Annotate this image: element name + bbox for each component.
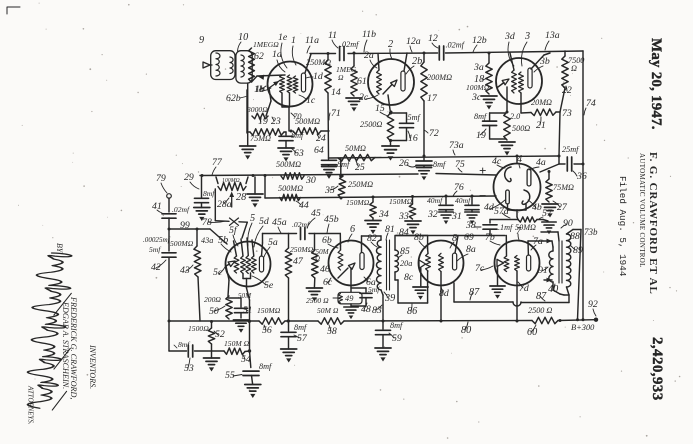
label 4a (529, 157, 546, 170)
resistor 50 200ohm (204, 295, 232, 319)
label 90 (561, 218, 573, 229)
resistor 18 100M (466, 53, 492, 103)
svg-text:Ω: Ω (571, 64, 577, 73)
svg-text:250MΩ: 250MΩ (348, 180, 373, 189)
svg-text:May 20, 1947.: May 20, 1947. (648, 38, 664, 130)
wire: V7 plate to output transformer (528, 241, 543, 255)
capacitor 64 8mf to ground (314, 145, 351, 179)
svg-text:150M Ω: 150M Ω (224, 339, 250, 348)
label 85 (398, 246, 410, 258)
wire: bottom bus B+ (169, 320, 595, 321)
label 62b (226, 93, 246, 104)
resistor 19 3000ohm (246, 105, 268, 127)
label 20a (400, 259, 412, 268)
text: EDGAR A. STRASCHEIN. (61, 301, 70, 389)
svg-text:73a: 73a (449, 140, 464, 151)
tube V8 envelope (419, 241, 464, 286)
svg-text:43a: 43a (201, 236, 213, 245)
svg-text:33: 33 (398, 211, 409, 222)
wire: V8 cathode to ground (420, 268, 422, 286)
svg-text:100MΩ: 100MΩ (222, 178, 240, 184)
capacitor 51 50mf (228, 292, 252, 318)
ground: resistor 18 (481, 96, 497, 110)
wire: V1 cathode lead (266, 101, 271, 116)
svg-text:500Ω: 500Ω (512, 124, 530, 133)
terminal 79 (156, 173, 171, 198)
svg-text:50M: 50M (238, 292, 252, 300)
ground: V2 cathode (382, 141, 399, 161)
svg-text:5f: 5f (229, 225, 238, 236)
svg-text:1d: 1d (313, 71, 323, 82)
svg-text:Filed Aug. 5, 1944: Filed Aug. 5, 1944 (617, 176, 628, 277)
svg-text:81: 81 (385, 224, 395, 235)
tube V2 envelope (368, 59, 414, 105)
wire: 41 to node 99 (168, 218, 170, 229)
resistor 60 2500ohm (527, 306, 558, 338)
wire: V6 grid top (340, 246, 342, 250)
svg-text:2a: 2a (364, 50, 374, 61)
svg-text:62b: 62b (226, 93, 241, 104)
tube V1 envelope (268, 62, 313, 107)
tube V5 cathode (226, 261, 235, 280)
label 82 (367, 233, 377, 247)
wire: V7 inner lead to bus (7d) (516, 271, 518, 321)
svg-text:87: 87 (536, 291, 547, 302)
tube V6 plate (360, 253, 364, 270)
wire: arrow to coil top (552, 241, 553, 251)
svg-text:11a: 11a (305, 35, 319, 46)
tube V1 plate (301, 73, 305, 92)
svg-text:40mf: 40mf (455, 196, 471, 205)
svg-text:60: 60 (527, 327, 537, 338)
wire 74: right vertical (583, 51, 596, 320)
wire: 46 bottom (313, 278, 315, 288)
ground: node 52 (204, 351, 220, 372)
resistor 46 750M to ground (312, 234, 330, 279)
capacitor 45 .02mf (292, 208, 321, 240)
label 1 (291, 35, 296, 65)
svg-text:250MΩ: 250MΩ (290, 245, 314, 254)
svg-text:77: 77 (212, 157, 223, 168)
svg-text:62: 62 (254, 51, 264, 62)
label 2b (406, 56, 422, 74)
svg-text:500MΩ: 500MΩ (278, 184, 303, 193)
svg-text:.02mf: .02mf (340, 40, 360, 49)
svg-text:19: 19 (258, 116, 268, 127)
ground: filter right (537, 220, 556, 235)
svg-text:63: 63 (294, 148, 304, 159)
capacitor 55 8mf (225, 362, 273, 384)
svg-text:INVENTORS.: INVENTORS. (88, 344, 97, 389)
label - polarity (479, 188, 486, 203)
svg-text:35: 35 (324, 185, 335, 196)
label 87 right (536, 291, 547, 302)
tube V3 grid 2 (519, 72, 524, 93)
svg-text:.02mf: .02mf (172, 205, 190, 214)
capacitor 48 5mf (351, 285, 380, 315)
svg-text:3000Ω: 3000Ω (246, 105, 268, 114)
svg-text:2c: 2c (359, 92, 369, 103)
label 8d (439, 287, 449, 299)
ground: cap 51 (233, 320, 248, 333)
svg-text:7c: 7c (475, 263, 485, 274)
resistor 62 1MEGohm (249, 40, 280, 82)
svg-text:79: 79 (156, 173, 166, 184)
svg-text:58: 58 (327, 326, 337, 337)
svg-text:57: 57 (297, 333, 308, 344)
capacitor 31 40mf to ground (451, 196, 479, 224)
wire: pot left tap down (215, 189, 229, 221)
ground: V6 cathode (344, 304, 358, 319)
svg-text:12a: 12a (406, 36, 421, 47)
label 39 (384, 292, 395, 304)
label 2c (359, 92, 378, 103)
coil: antenna primary (216, 53, 220, 76)
transformer output core (559, 241, 562, 283)
tube V3 envelope (496, 58, 542, 104)
label 7 (516, 226, 522, 240)
text: ATTORNEYS. (27, 385, 34, 425)
wire: left vertical (246, 90, 248, 133)
svg-text:150MΩ: 150MΩ (257, 306, 281, 315)
tube V7 grid 2 (515, 256, 520, 272)
label 1e (278, 32, 288, 68)
wire: V3 cathode down (506, 87, 508, 112)
resistor 22 7500ohm (562, 51, 585, 96)
coil: output secondary (567, 234, 571, 287)
label 5f (229, 225, 238, 246)
tube V4 electrode 4c hook (505, 167, 511, 182)
svg-text:45b: 45b (324, 214, 339, 225)
svg-text:8a: 8a (466, 244, 476, 255)
svg-text:90: 90 (563, 218, 573, 229)
signature: attorneys cursive signature (27, 253, 72, 411)
tube V5 grid join (243, 273, 251, 351)
svg-text:45a: 45a (272, 217, 287, 228)
capacitor 16 5mf (389, 111, 422, 144)
svg-text:59: 59 (392, 333, 402, 344)
label 5b (218, 235, 231, 252)
resistor 35 250M (324, 176, 373, 198)
svg-text:1MEGΩ: 1MEGΩ (253, 40, 279, 49)
tube V1 grid 2 (287, 75, 292, 93)
svg-text:.00025mf: .00025mf (143, 236, 171, 244)
label 5c (213, 267, 225, 278)
label 7a (531, 236, 543, 250)
svg-text:1: 1 (291, 35, 296, 46)
svg-text:40mf: 40mf (427, 196, 443, 205)
svg-text:1500Ω: 1500Ω (188, 324, 209, 333)
resistor 61 1MEG (336, 53, 367, 96)
resistor 25 50M (338, 144, 375, 173)
resistor 58 50M (317, 306, 344, 337)
wire: V3 grid to bus (510, 53, 514, 70)
svg-text:30: 30 (305, 175, 316, 186)
svg-text:2500 Ω: 2500 Ω (528, 306, 552, 315)
wire: to V5 grids (239, 222, 247, 238)
svg-text:34: 34 (378, 209, 389, 220)
resistor 21 20M (521, 88, 565, 131)
wire: bus 77 left section (200, 174, 418, 176)
wire: V2 cathode lead (388, 95, 391, 113)
tube V3 cathode (498, 79, 509, 87)
tube V5 grid 1 (234, 241, 239, 273)
svg-text:89: 89 (573, 245, 583, 256)
label 4b (528, 200, 542, 213)
label 88 (570, 231, 580, 242)
resistor 15 2500ohm (360, 103, 394, 141)
tube V5 envelope (226, 242, 271, 287)
resistor 56 150M (257, 306, 285, 336)
wire: top plate supply bus (310, 51, 583, 54)
label + polarity (479, 163, 486, 178)
svg-text:8mf: 8mf (203, 189, 215, 198)
svg-text:71: 71 (331, 108, 341, 119)
svg-text:+: + (479, 163, 486, 178)
tube V1 grid 3 (293, 76, 298, 93)
label 13a (545, 30, 560, 50)
arrow: primary bottom (544, 278, 552, 283)
wire: bus to cap 55 (248, 320, 252, 368)
resistor 30 500M (276, 160, 316, 186)
wire: V4 right to cap 36 (540, 164, 559, 172)
resistor 52 1500ohm (188, 322, 225, 345)
label 11b (362, 29, 376, 52)
svg-text:12: 12 (428, 33, 438, 44)
wire: bus 75 right section (436, 159, 496, 175)
svg-text:150MΩ: 150MΩ (346, 198, 370, 207)
svg-text:.1mf: .1mf (498, 223, 514, 232)
label 6c (323, 277, 333, 288)
tube V6 grid (338, 250, 343, 270)
switch X 78 (202, 217, 239, 228)
resistor 14 250M (306, 54, 341, 99)
svg-text:10: 10 (238, 32, 248, 43)
wire: V8 grid2 to bus (8d) (440, 272, 442, 321)
svg-text:11b: 11b (362, 29, 376, 40)
label 8 (450, 233, 457, 248)
text: BY (55, 243, 64, 254)
svg-text:500MΩ: 500MΩ (170, 239, 194, 248)
tube V5 grid 3 (246, 238, 251, 274)
resistor 57 50M (494, 206, 553, 232)
capacitor 42 .00025mf (143, 229, 176, 321)
svg-text:92: 92 (588, 299, 598, 310)
svg-text:88: 88 (570, 231, 580, 242)
resistor 17 200M (421, 53, 452, 104)
capacitor 53 8mf (169, 321, 212, 374)
label 4 (517, 154, 522, 168)
svg-text:12b: 12b (472, 35, 487, 46)
tube V1 grid 1 (280, 75, 285, 93)
tube V4 envelope (494, 164, 541, 211)
wire 72: to node 73a (424, 101, 439, 156)
svg-text:200Ω: 200Ω (204, 295, 221, 304)
wire: primary bottom lead (553, 282, 564, 295)
label 4d (484, 200, 505, 213)
svg-text:57a: 57a (494, 206, 509, 217)
antenna terminal 9 (199, 35, 212, 68)
resistor 43 500M (170, 229, 213, 277)
svg-text:150MΩ: 150MΩ (389, 197, 413, 206)
ground: V8 cathode (413, 287, 428, 300)
svg-text:61: 61 (357, 76, 367, 87)
label 80 (461, 322, 471, 336)
svg-text:2500Ω: 2500Ω (360, 120, 382, 129)
label 3b (534, 56, 550, 72)
tube V4 electrode 4d (506, 190, 510, 204)
label 6a (364, 277, 376, 288)
svg-text:5: 5 (250, 213, 255, 224)
wire: V8 plate up (455, 236, 458, 254)
svg-text:200MΩ: 200MΩ (427, 73, 452, 82)
label 87 left (469, 287, 480, 300)
wire: bus join 77 to 76 (264, 175, 266, 198)
wire: V6 cathode down (350, 268, 352, 292)
svg-text:25: 25 (355, 162, 365, 173)
ground: cap 55 (245, 385, 261, 399)
wire 73: down to bus 73a (559, 108, 572, 156)
svg-text:14: 14 (331, 87, 341, 98)
wire: secondary bottom loop 86 (395, 272, 428, 317)
capacitor 38 .1mf (465, 220, 514, 236)
svg-text:500MΩ: 500MΩ (295, 117, 320, 126)
svg-text:8c: 8c (404, 272, 414, 283)
svg-text:31: 31 (451, 211, 462, 222)
ground: resistor 46 (306, 288, 322, 302)
svg-text:3a: 3a (473, 62, 484, 73)
label 10 (238, 32, 249, 51)
svg-text:8mf: 8mf (178, 340, 190, 349)
label 99 (180, 220, 190, 231)
svg-text:25mf: 25mf (562, 145, 580, 154)
text: FREDERICK G. CRAWFORD, (69, 296, 78, 399)
wire: V3 plate to bus (531, 53, 550, 69)
svg-text:5c: 5c (213, 267, 223, 278)
tube V5 grid 4 (251, 240, 256, 273)
capacitor 32 40mf to ground (427, 196, 453, 224)
svg-text:11: 11 (328, 30, 337, 41)
svg-text:3c: 3c (471, 92, 482, 103)
svg-text:4a: 4a (536, 157, 546, 168)
svg-text:73: 73 (562, 108, 572, 119)
text: patent date May 20, 1947 (648, 38, 664, 130)
svg-text:2,420,933: 2,420,933 (649, 337, 665, 401)
wire: V5 plate to coupling (262, 234, 263, 257)
tube V8 cathode (419, 260, 426, 268)
svg-text:13a: 13a (545, 30, 560, 41)
text: inventor names header F. G. CRAWFORD ET AL (647, 152, 659, 295)
svg-text:AUTOMATIC VOLUME CONTROL: AUTOMATIC VOLUME CONTROL (638, 153, 646, 268)
label 4c (492, 156, 505, 168)
tube V4 plate 4a (527, 169, 531, 186)
svg-text:32: 32 (427, 209, 438, 220)
svg-text:1e: 1e (278, 32, 288, 43)
tube V2 plate (401, 71, 405, 91)
svg-text:47: 47 (293, 256, 304, 267)
transformer box 2 (236, 51, 252, 83)
tube V7 cathode (497, 259, 504, 266)
svg-text:250MΩ: 250MΩ (306, 58, 331, 67)
wire: V2 grid to bus (378, 54, 379, 71)
coil: transformer 82 primary (377, 240, 382, 290)
label 3 (521, 31, 530, 66)
label 6 (348, 224, 356, 242)
wire: bus 73a (329, 140, 560, 178)
label 73b (584, 227, 598, 237)
wire: V2 plate to bus (404, 53, 407, 71)
svg-text:1c: 1c (306, 95, 316, 106)
svg-text:45: 45 (311, 208, 321, 219)
ground: V7 cathode (490, 286, 505, 299)
tube V8 plate (453, 253, 457, 270)
capacitor 19 8mf (474, 112, 506, 141)
label 81 (385, 224, 395, 240)
svg-text:80: 80 (461, 325, 471, 336)
tube V2 cathode (383, 80, 397, 94)
wire: secondary bottom (567, 287, 570, 295)
coil: output primary 91 (549, 251, 553, 282)
label 91 (538, 265, 548, 276)
ground: resistor 61 (346, 98, 362, 112)
svg-text:5mf: 5mf (408, 113, 422, 122)
label 7c (475, 263, 493, 274)
coil: transformer secondary 85 (395, 250, 398, 272)
svg-text:36: 36 (576, 171, 587, 182)
svg-text:500MΩ: 500MΩ (276, 160, 301, 169)
wire: bus 73a corner to cap 36 (559, 156, 565, 164)
svg-text:29: 29 (184, 172, 194, 183)
svg-text:1a: 1a (272, 49, 282, 60)
label 89 (571, 245, 583, 256)
svg-text:8mf: 8mf (294, 323, 308, 332)
svg-text:76: 76 (454, 182, 464, 193)
svg-text:28: 28 (236, 192, 246, 203)
terminal 92 B+300 (588, 299, 598, 322)
tube V5 plate (259, 256, 263, 272)
svg-text:ATTORNEYS.: ATTORNEYS. (27, 385, 34, 425)
svg-text:17: 17 (427, 93, 438, 104)
capacitor 11 .02mf (328, 30, 360, 61)
svg-text:74: 74 (586, 98, 596, 109)
resistor 75M (247, 129, 284, 143)
tube V3 grid 1 (512, 70, 517, 93)
text: Filed Aug. 5, 1944 (617, 176, 628, 277)
label 5a (264, 237, 278, 257)
resistor 47 250M (285, 234, 313, 322)
transformer 81 core (387, 240, 390, 290)
svg-text:−: − (479, 188, 486, 203)
wire: 43 to bus (198, 277, 200, 321)
label 84 (399, 227, 409, 238)
wire: V1 plate to top bus (305, 54, 311, 73)
wire: V5 cathode down (228, 280, 229, 296)
resistor 27 75M to ground (542, 171, 574, 218)
text: title AUTOMATIC VOLUME CONTROL (638, 153, 646, 268)
arrow: primary top (541, 232, 559, 243)
svg-text:42: 42 (151, 262, 161, 273)
svg-text:5d: 5d (259, 216, 269, 227)
capacitor 41 .02mf (152, 201, 190, 218)
capacitor 36 25mf (562, 145, 587, 182)
tube V3 plate (528, 68, 532, 88)
svg-text:8mf: 8mf (474, 112, 488, 121)
svg-text:BY: BY (55, 243, 64, 254)
wire: primary bottom to bus (381, 290, 383, 321)
svg-text:44: 44 (299, 200, 309, 211)
svg-text:69: 69 (464, 232, 474, 243)
svg-text:100MΩ: 100MΩ (466, 83, 490, 92)
